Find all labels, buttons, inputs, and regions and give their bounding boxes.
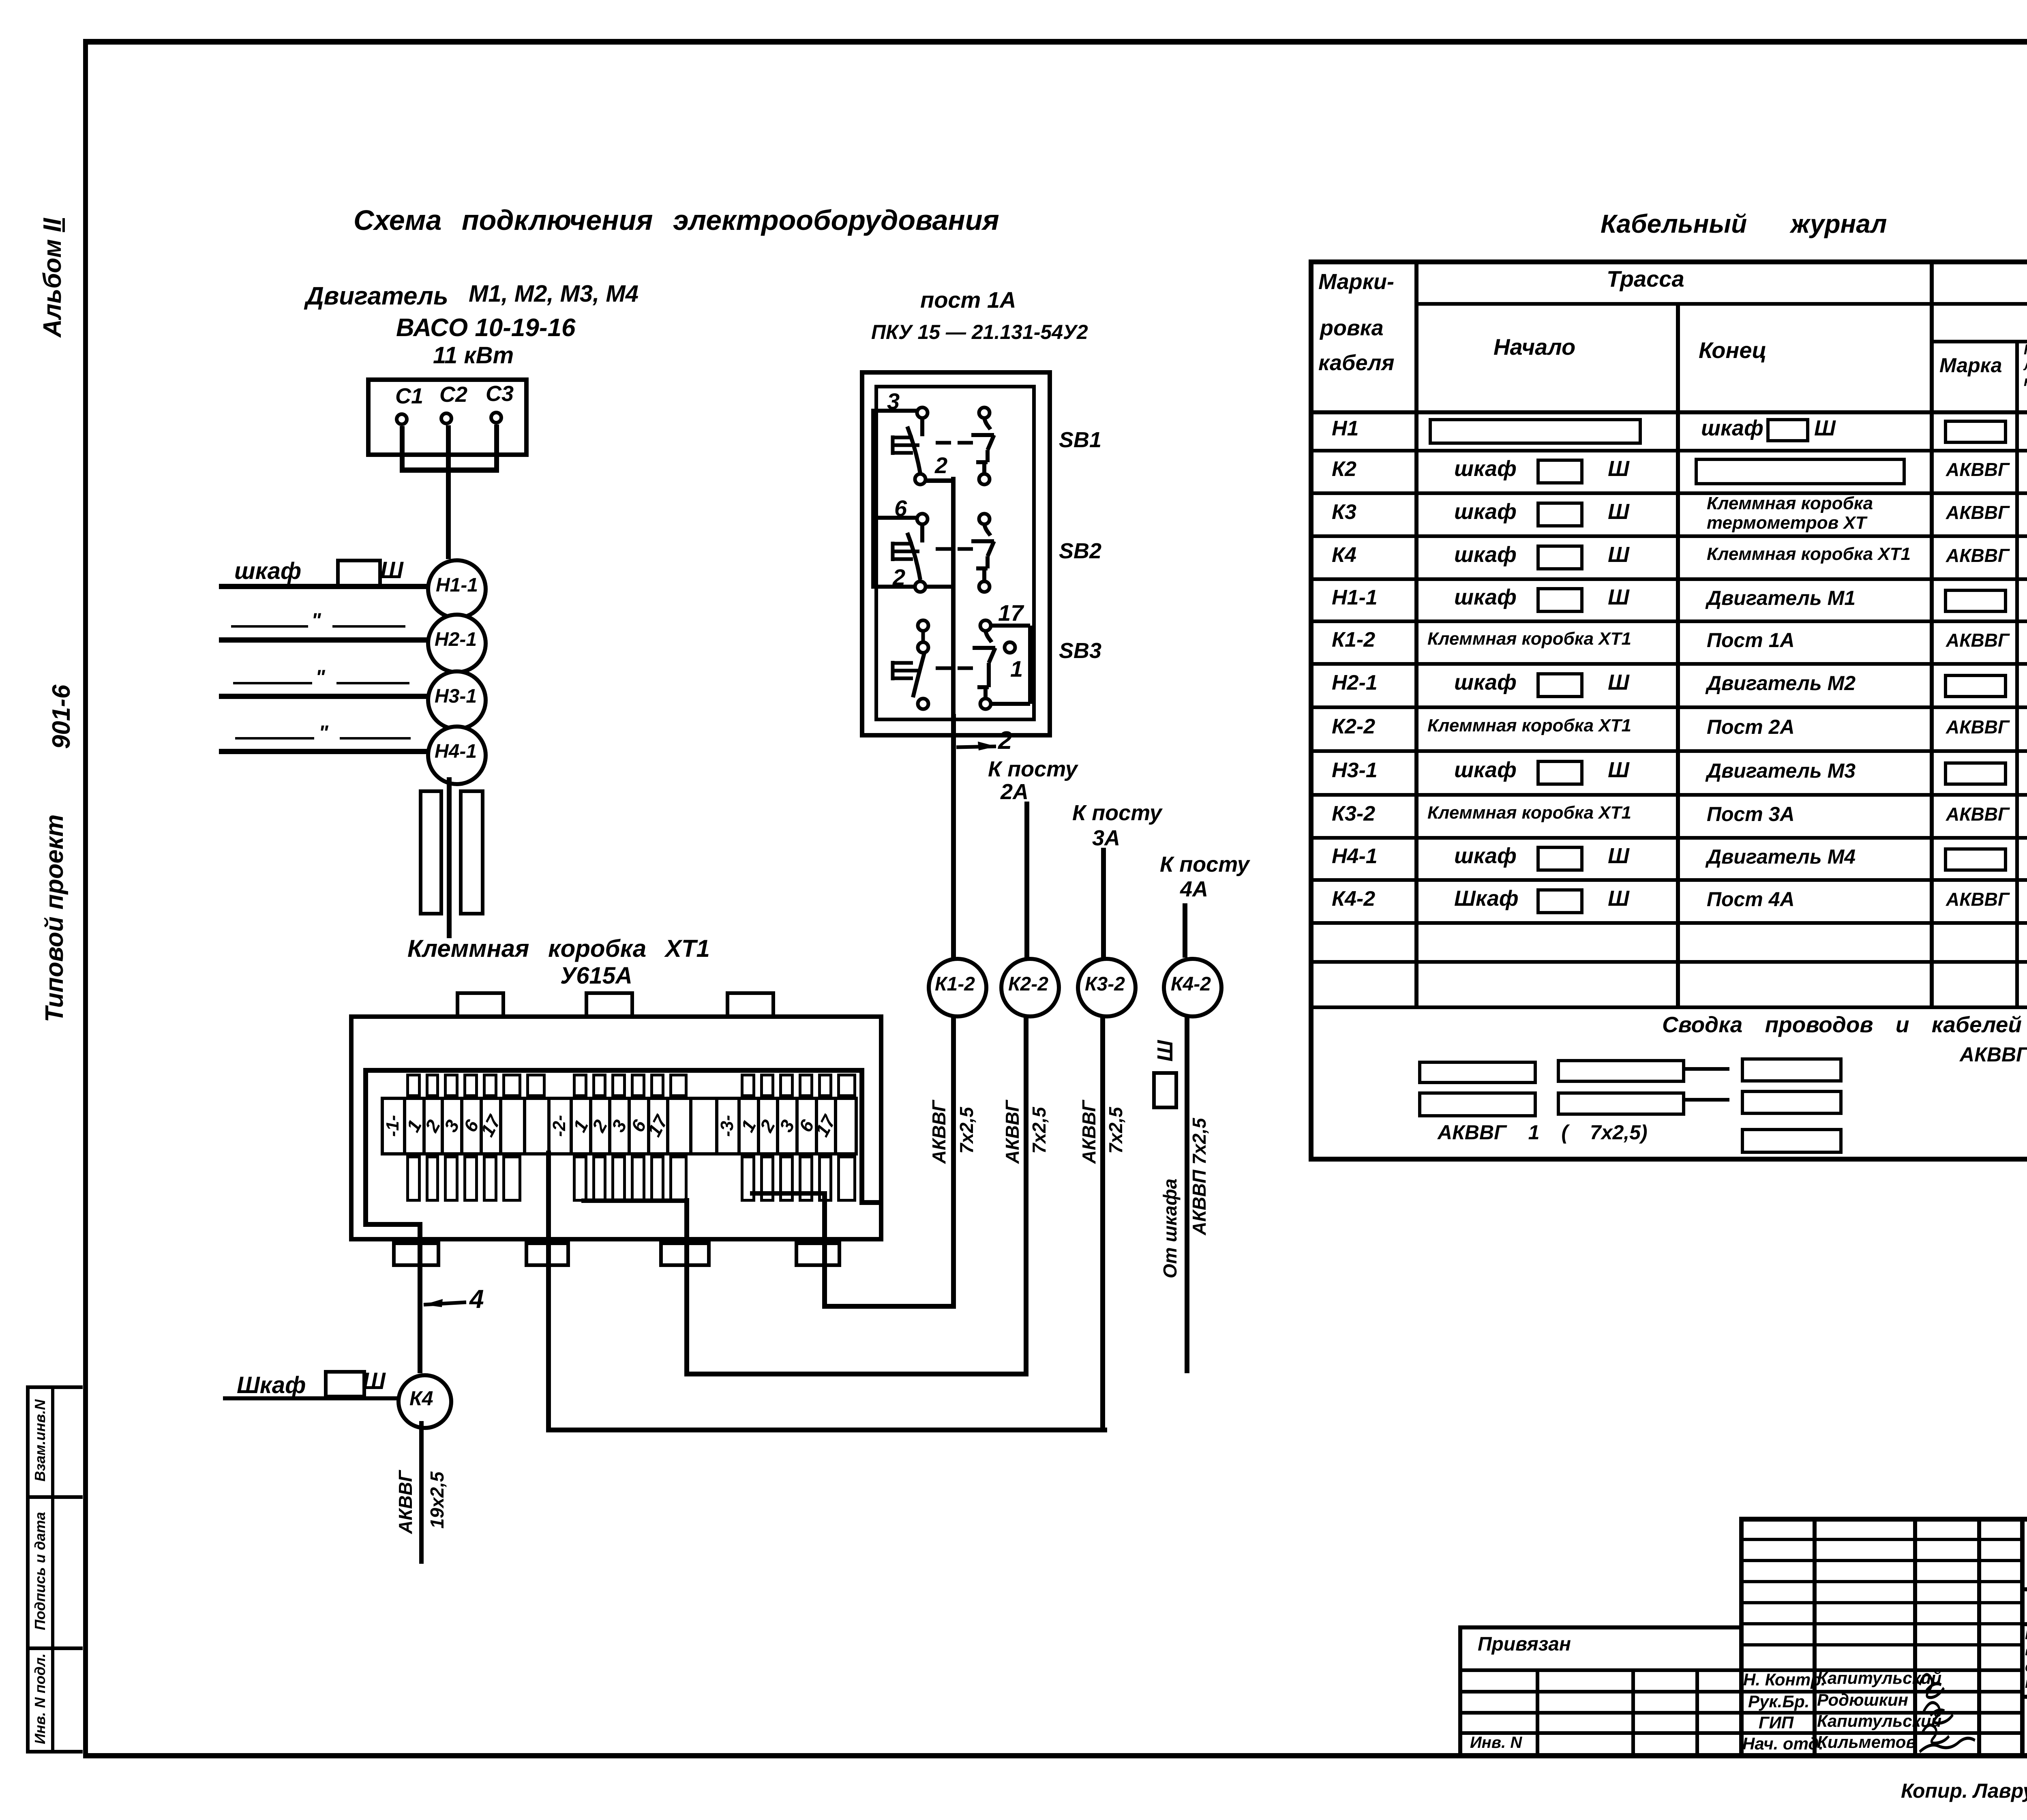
terminal label C2 [439, 384, 467, 405]
wire to H2-1 [219, 637, 427, 643]
pin label 2 SB2 [893, 566, 905, 589]
label Шкаф K4 [237, 1374, 306, 1397]
wire bump4 down [822, 1191, 827, 1309]
table row К2 [1332, 459, 1356, 480]
terminal strip outline [381, 1097, 858, 1155]
cable label K1-2 [930, 1100, 948, 1164]
wire bump3 down [684, 1198, 689, 1376]
table header lines [1414, 302, 2027, 306]
letter Ш K4 [362, 1370, 386, 1393]
table row lines [1309, 449, 2027, 452]
table row К2-2 [1332, 716, 1375, 737]
label К посту 4А [1160, 853, 1249, 875]
header texts [1318, 271, 1394, 293]
table outer border [1309, 259, 2027, 264]
ditto line row2 [231, 625, 308, 628]
wire bump3 to K2-2 horizontal [684, 1372, 1028, 1376]
circle H1-1 [426, 558, 488, 620]
inner cable contour bottom-left [363, 1222, 422, 1227]
wire H4-1 to XT1 [447, 777, 452, 938]
table column lines [1414, 259, 1418, 1005]
group3 tab bus [750, 1191, 827, 1196]
wire C2 down to H1-1 [446, 425, 451, 559]
ditto line row4 [235, 737, 314, 740]
cable label AKVVG 19x2.5 [396, 1471, 415, 1534]
pin label 2 SB1 [935, 454, 947, 477]
XT1 bottom bump 3 [659, 1241, 711, 1267]
table row Н2-1 [1332, 672, 1378, 693]
privyazan grid verticals [1536, 1668, 1539, 1755]
wire K2-2 vertical lower [1024, 1010, 1028, 1376]
wire exit vertical inside box [951, 477, 956, 716]
svodka row2 box2 [1557, 1091, 1685, 1116]
switch SB2 [868, 504, 1046, 601]
inner cable contour right [859, 1068, 864, 1205]
footer notes [1901, 1781, 2027, 1801]
label SB1 [1059, 429, 1101, 451]
circle H3-1 [426, 669, 488, 731]
switch SB1 [868, 397, 1046, 495]
wire K3-2 vertical lower [1100, 1010, 1105, 1432]
post box outer [860, 370, 1052, 737]
table row К4 [1332, 544, 1356, 566]
terminal label C3 [486, 383, 514, 405]
wire K2-2 upper [1024, 802, 1029, 958]
table row К3 [1332, 502, 1356, 523]
table title [1601, 211, 1887, 237]
svodka label AKVVG 19x2,5 [1960, 1044, 2027, 1065]
table row Н3-1 [1332, 760, 1378, 781]
svodka label AKVVG 7x2,5 [1438, 1122, 1648, 1143]
wire net3 horizontal [871, 409, 919, 413]
wire SB1 pin2 to exit [926, 478, 956, 483]
cable label K2-2 [1003, 1100, 1022, 1164]
label К посту 2А [988, 758, 1078, 780]
group2 tab bus [581, 1198, 689, 1203]
XT1 top bump 3 [726, 991, 775, 1018]
title block top border [1739, 1517, 2027, 1522]
svodka row2 box3 [1741, 1090, 1843, 1115]
circle K1-2 [927, 957, 988, 1018]
table row Н4-1 [1332, 846, 1378, 867]
switch SB3 [868, 596, 1062, 726]
wire bump4 to K1-2 horizontal [822, 1304, 956, 1309]
wire net2b horizontal [871, 585, 956, 589]
svodka row2 dash [1684, 1098, 1729, 1102]
frame top line [83, 39, 2027, 45]
terminal top tabs [406, 1074, 421, 1097]
wire K3-2 upper [1101, 848, 1106, 958]
circle K4 [396, 1373, 453, 1430]
margin stamp boxes [26, 1385, 30, 1754]
circle H4-1 [426, 725, 488, 786]
frame left line [83, 39, 88, 1758]
margin label: Инв. N подл. [33, 1653, 47, 1744]
wire to H1-1 [219, 584, 427, 589]
title block verticals [1739, 1517, 1744, 1756]
XT1 bottom bump 1 [392, 1241, 440, 1267]
signatures [1911, 1654, 2001, 1758]
privyazan box [1458, 1625, 1742, 1629]
margin label: Подпись и дата [33, 1512, 47, 1630]
drawing title [354, 206, 999, 234]
signers [1743, 1671, 1826, 1688]
letter Ш row1 [380, 559, 403, 582]
wire C1 down [400, 426, 405, 472]
title block name rows [1458, 1668, 2023, 1672]
XT1 bottom bump 2 [525, 1241, 570, 1267]
wire K4-2 upper [1183, 903, 1187, 958]
terminal box XT1 outline [349, 1014, 883, 1241]
margin label: Взам.инв.N [33, 1400, 47, 1482]
pin label 3 [887, 390, 900, 413]
cable label K4-2 [1161, 1179, 1179, 1278]
label пост 1А [920, 289, 1016, 311]
svodka title [1662, 1014, 2022, 1036]
table row К1-2 [1332, 629, 1375, 650]
svodka row3 box3 [1741, 1128, 1843, 1154]
label SB3 [1059, 640, 1101, 662]
inner cable contour top [363, 1068, 864, 1073]
svodka row1 box1 [1418, 1061, 1537, 1084]
post box inner [874, 385, 1036, 721]
wire K1-2 from post box [951, 714, 956, 958]
label Инв.N [1470, 1734, 1522, 1751]
connector rectangles pair [419, 789, 443, 915]
terminal circle C1 [395, 412, 409, 426]
cable label K3-2 [1080, 1100, 1098, 1164]
table row К4-2 [1332, 888, 1375, 909]
svodka row1 dash [1684, 1067, 1729, 1071]
margin label: Альбом II [40, 218, 65, 337]
wire jumper C1-C3 [400, 467, 499, 473]
wire bump2 down [546, 1151, 551, 1432]
wire to K4 circle [223, 1396, 398, 1400]
table row Н1 [1332, 418, 1358, 439]
motor M box [366, 377, 529, 457]
wire C3 down [494, 424, 499, 469]
circle K4-2 [1162, 957, 1223, 1018]
circle K3-2 [1076, 957, 1138, 1018]
wire K4 down [419, 1421, 424, 1564]
ditto line row3 [233, 682, 312, 684]
title block small grid rows [1739, 1538, 2023, 1541]
terminal strip labels [384, 1115, 402, 1137]
pin label 6 [894, 497, 907, 520]
XT1 bottom bump 4 [795, 1241, 841, 1267]
terminal circle C2 [439, 412, 453, 425]
svodka row1 box2 [1557, 1059, 1685, 1083]
wire bump2 to K3-2 horizontal [546, 1428, 1107, 1432]
node 4 arrow [422, 1293, 478, 1314]
shkaf symbol K4-2 [1154, 1040, 1176, 1062]
frame bottom line [83, 1753, 2027, 1758]
svodka row2 box1 [1418, 1091, 1537, 1117]
project description [2025, 1627, 2027, 1642]
wire K4-2 vertical lower open end [1185, 1010, 1189, 1373]
XT1 top bump 1 [456, 991, 505, 1018]
node label 4 [469, 1286, 484, 1312]
terminal circle C3 [489, 411, 503, 424]
motor caption [306, 284, 448, 309]
margin label: Типовой проект [42, 815, 67, 1023]
label К посту 3А [1072, 802, 1162, 824]
pin label 17 [998, 602, 1023, 624]
inner cable contour right stub [859, 1200, 883, 1205]
circle H2-1 [426, 613, 488, 674]
terminal strip cell dividers [403, 1097, 406, 1155]
label SB2 [1059, 540, 1101, 562]
shkaf box row1 [336, 559, 382, 588]
wire K1-2 vertical lower [951, 1010, 956, 1309]
terminal label C1 [395, 385, 423, 407]
wire to H3-1 [219, 694, 427, 699]
pin label 1 [1010, 658, 1023, 680]
inner cable contour left [363, 1068, 368, 1227]
svodka row1 box3 [1741, 1057, 1843, 1083]
shkaf box K4 [324, 1370, 366, 1398]
label Клеммная коробка ХТ1 [407, 937, 710, 961]
circle K2-2 [999, 957, 1061, 1018]
table row Н1-1 [1332, 587, 1378, 608]
arrow node 2 [956, 736, 1000, 756]
terminal bottom tabs [406, 1155, 421, 1202]
wire net3 vertical [871, 409, 875, 589]
wire to H4-1 [219, 749, 427, 754]
label шкаф row1 [234, 560, 301, 583]
XT1 top bump 2 [585, 991, 634, 1018]
table row К3-2 [1332, 803, 1375, 824]
wire bump1 to K4 [418, 1227, 422, 1373]
wire net6 horizontal [871, 516, 919, 520]
margin label: 901-6 [49, 685, 74, 749]
title block horizontal splits right [2020, 1587, 2027, 1591]
label ПКУ 15 - 21.131-54У2 [871, 322, 1088, 342]
